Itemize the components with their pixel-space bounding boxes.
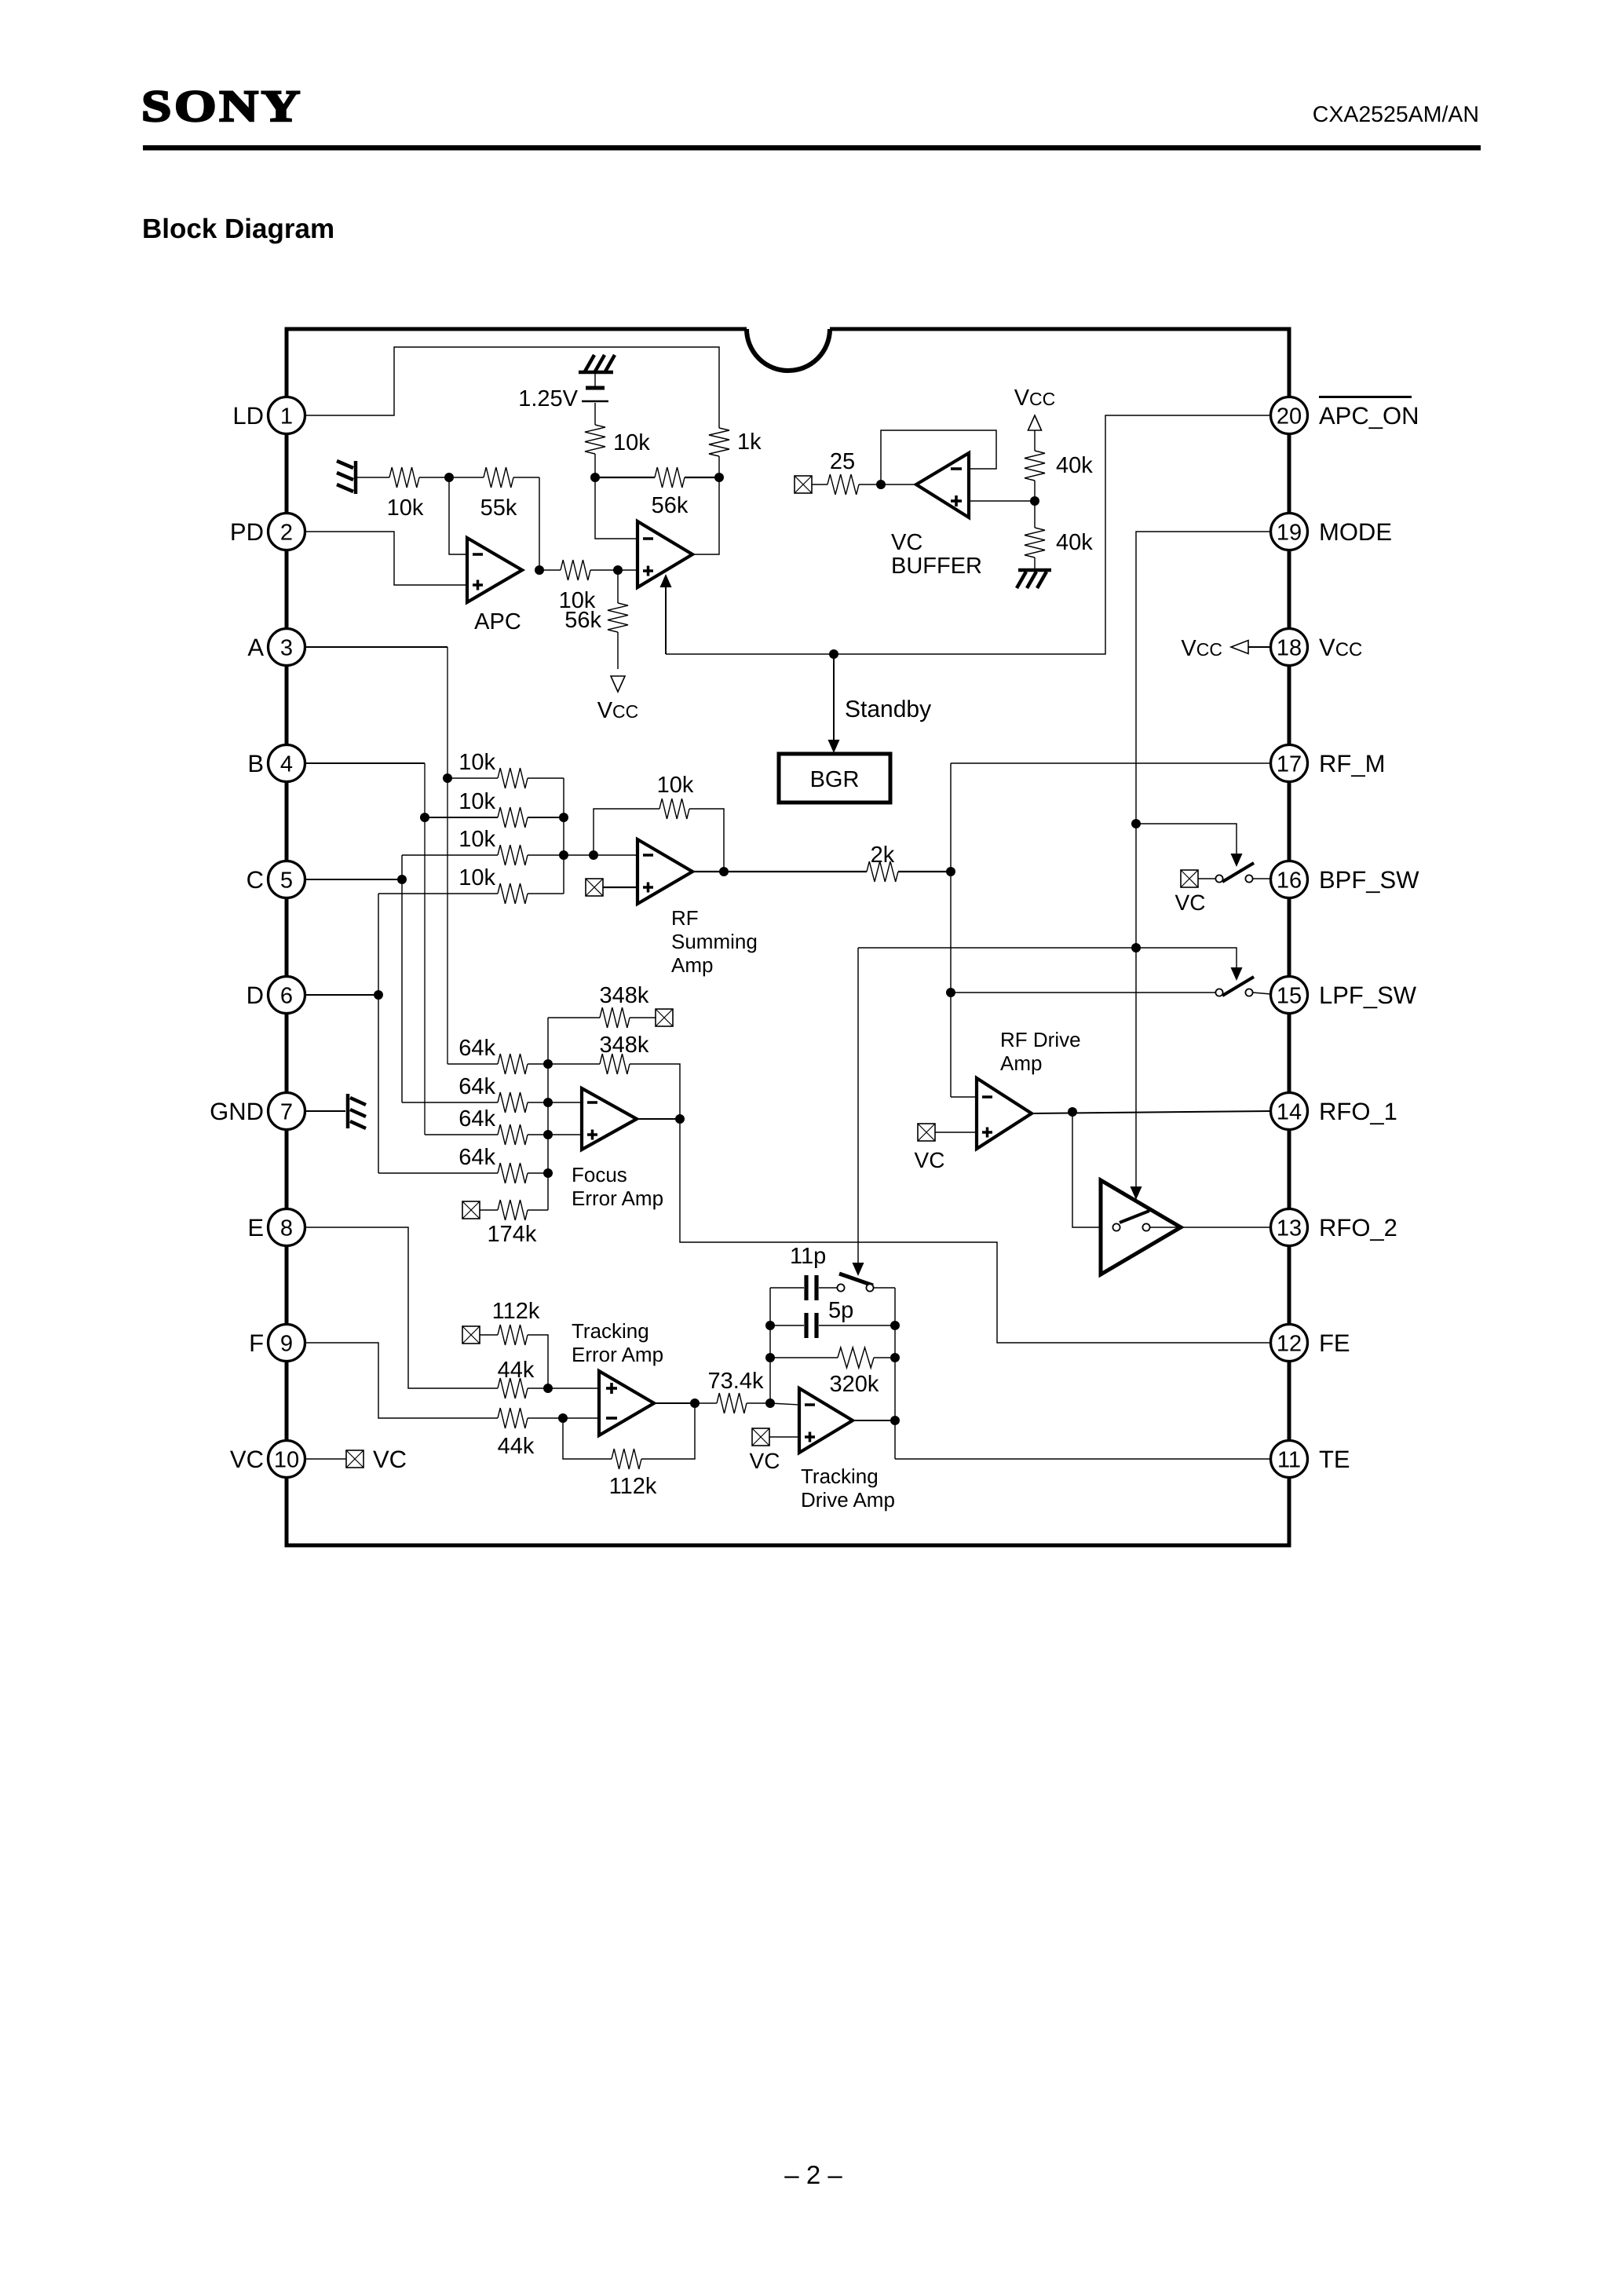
wire tracking drive output [853,1420,895,1421]
ground (APC input, left) [337,461,356,494]
resistor 10k (B input) [425,789,564,828]
svg-text:1k: 1k [737,430,762,455]
switch LPF_SW [1215,977,1271,996]
VC net symbol (112k upper) [462,1326,480,1344]
resistor 348k (focus feedback) [548,1033,680,1119]
wire pin5 C stub [305,879,402,880]
node A3 (laser amp + input node) [613,565,623,575]
tracking feedback left bus [769,1288,771,1403]
wire RF_M to RF drive - input [951,1096,977,1098]
VC buffer feedback loop [881,430,996,484]
svg-text:64k: 64k [458,1074,495,1099]
node B-10k [420,813,429,822]
svg-text:RF Drive: RF Drive [1000,1028,1081,1051]
svg-text:55k: 55k [480,495,517,521]
svg-text:112k: 112k [492,1299,540,1324]
svg-text:APC: APC [474,609,521,634]
wire RF drive output to pin14 [1032,1111,1271,1113]
svg-text:Error Amp: Error Amp [572,1186,663,1210]
svg-text:12: 12 [1277,1332,1302,1357]
svg-text:BUFFER: BUFFER [891,554,982,579]
node 5p left [765,1321,775,1330]
svg-text:19: 19 [1277,521,1302,546]
node sum-B [559,813,568,822]
svg-text:320k: 320k [830,1372,879,1397]
svg-text:1: 1 [280,404,293,430]
node MODE-BPF branch [1131,819,1141,828]
wire pin2 PD to APC non-inverting input [305,532,467,585]
svg-text:15: 15 [1277,984,1302,1009]
svg-text:348k: 348k [600,1033,649,1058]
svg-text:LD: LD [232,402,264,430]
svg-text:40k: 40k [1056,530,1093,555]
svg-text:APC_ON: APC_ON [1319,402,1419,430]
pin 9 (F) [249,1325,305,1362]
resistor 73.4k [695,1369,770,1413]
svg-text:9: 9 [280,1332,293,1357]
svg-text:A: A [247,634,264,661]
focus bus vertical [547,1018,549,1210]
svg-text:Error Amp: Error Amp [572,1343,663,1366]
pin 11 (TE) [1271,1441,1350,1478]
wire buffer output to pin13 [1181,1227,1271,1228]
node tracking + node [543,1384,553,1393]
svg-text:FE: FE [1319,1329,1350,1357]
node tracking error output [690,1398,700,1408]
wire summing output [692,871,724,872]
node RF_M-LPF [946,988,955,997]
svg-text:B: B [247,750,264,777]
svg-text:C: C [247,866,264,894]
svg-text:10k: 10k [458,865,495,890]
node A1 (56k left junction) [590,473,600,482]
resistor 64k (D) [378,1145,548,1183]
svg-text:25: 25 [830,449,855,474]
resistor 40k (upper) [1025,430,1093,501]
VC net symbol (buffer output) [795,476,812,493]
node tracking - node [558,1413,568,1423]
op-amp U4 (RF summing) [637,839,692,904]
MODE arrow into RFO_2 buffer [1131,1186,1142,1200]
svg-text:44k: 44k [498,1358,535,1383]
resistor 44k (F input) [498,1408,563,1459]
wire pin1 LD to top rail and 1k [305,347,719,428]
svg-text:– 2 –: – 2 – [784,2160,842,2189]
svg-text:Drive Amp: Drive Amp [801,1488,895,1512]
node A4 (10k/55k junction) [444,473,454,482]
svg-text:VC: VC [230,1446,264,1473]
svg-text:LPF_SW: LPF_SW [1319,982,1417,1009]
wire node A4 to APC inverting input [449,477,467,554]
svg-text:PD: PD [230,518,264,546]
svg-text:64k: 64k [458,1106,495,1132]
node 320k left [765,1353,775,1362]
node VC buffer output [876,480,886,489]
wire pin19 MODE control line [1136,532,1271,1188]
resistor 10k (A input) [448,750,564,788]
resistor 55k (APC feedback) [449,467,539,521]
svg-text:348k: 348k [600,983,649,1008]
svg-text:Amp: Amp [671,953,713,977]
IC package outline with pin-1 notch [287,329,1289,1545]
svg-text:10k: 10k [458,827,495,852]
pin 17 (RF_M) [1271,745,1386,782]
wire to tracking + input [548,1387,599,1389]
VC net symbol (pin 10) [346,1450,363,1468]
summing input bus [563,778,564,894]
node A-10k [443,773,452,783]
svg-text:56k: 56k [564,608,601,633]
pin 2 (PD) [230,514,305,550]
wire focus - input [548,1102,582,1103]
svg-text:64k: 64k [458,1036,495,1061]
resistor 112k (tracking feedback) [563,1403,695,1499]
resistor 10k (C input) [402,827,564,865]
svg-text:F: F [249,1329,264,1357]
resistor 56k (to Vcc) [564,570,628,669]
buffer U6 (RFO_2 switch buffer) [1101,1180,1181,1274]
op-amp U7 (focus error) [582,1088,637,1150]
resistor 64k (A) [448,1036,548,1074]
svg-text:17: 17 [1277,752,1302,777]
VC net symbol (BPF switch) [1181,870,1198,887]
node summing output [719,867,729,876]
resistor 25 (VC buffer output) [812,449,881,495]
node focus-D [543,1168,553,1178]
wire focus + input [548,1134,582,1135]
VC net symbol (348k) [656,1009,673,1026]
node focus-C [543,1098,553,1107]
wire node A1 to laser amp inverting input [595,477,637,539]
svg-text:20: 20 [1277,404,1302,430]
resistor 10k (D input) [378,865,564,904]
svg-text:10k: 10k [387,495,424,521]
svg-text:5: 5 [280,868,293,894]
svg-text:10: 10 [274,1448,299,1473]
wire to tracking - input [563,1417,599,1419]
svg-text:D: D [247,982,264,1009]
ground (above 1.25V reference) [579,355,615,372]
resistor 174k [480,1200,548,1247]
node focus-B [543,1130,553,1139]
svg-text:Tracking: Tracking [572,1319,649,1343]
wire B vertical [424,763,426,1135]
wire 55k to APC output node [539,477,540,570]
node RFO1 [1068,1107,1077,1117]
svg-text:4: 4 [280,752,293,777]
svg-text:Block Diagram: Block Diagram [142,214,334,244]
resistor 40k (lower) [1025,501,1093,569]
wire buffer output to apex [881,484,916,485]
node sum-C [559,850,568,860]
node D-pin6 [374,990,383,1000]
wire pin10 VC stub [305,1458,346,1460]
svg-text:56k: 56k [652,493,689,518]
svg-text:SONY: SONY [141,82,303,131]
node C-pin5 [397,875,407,884]
BPF control wire [1136,824,1237,857]
standby arrow into laser amp [665,586,667,654]
capacitor 11p with switch [770,1244,895,1300]
svg-text:2: 2 [280,521,293,546]
wire D vertical [378,894,379,1173]
pin 7 (GND) [210,1093,305,1130]
node RF_M-2k [946,867,955,876]
svg-text:VCC: VCC [597,698,639,723]
resistor 112k (to VC) [480,1299,548,1388]
svg-text:16: 16 [1277,868,1302,894]
svg-text:Tracking: Tracking [801,1464,879,1488]
op-amp U3 (VC buffer, left-pointing) [916,453,969,517]
Vcc symbol (down arrow, laser amp bias) [597,676,639,723]
wire laser amp output to node A2 [692,477,719,554]
RF_M node vertical [950,763,952,1097]
node A2 (1k/56k output junction) [714,473,724,482]
wire node A3 to laser amp non-inverting input [618,569,637,571]
pin 18 (VCC) [1271,629,1363,666]
svg-text:VCC: VCC [1181,636,1222,661]
svg-text:73.4k: 73.4k [708,1369,764,1394]
tracking feedback right bus [894,1288,896,1459]
VC net symbol (RF drive + input) [918,1124,935,1141]
svg-text:14: 14 [1277,1100,1302,1125]
op-amp U9 (tracking drive) [799,1388,853,1453]
VC net symbol (tracking drive + input) [752,1428,769,1446]
svg-text:13: 13 [1277,1216,1302,1241]
pin 16 (BPF_SW) [1271,861,1420,898]
svg-text:VCC: VCC [1014,386,1056,411]
resistor 10k (APC input) [357,467,449,521]
svg-text:VC: VC [373,1446,407,1473]
svg-text:Amp: Amp [1000,1051,1042,1075]
ground (below 40k divider) [1017,570,1051,588]
wire focus output [637,1118,680,1120]
svg-text:MODE: MODE [1319,518,1392,546]
svg-text:44k: 44k [498,1434,535,1459]
Vcc arrow at pin 18 [1248,646,1271,648]
node 5p right [890,1321,900,1330]
svg-text:RF: RF [671,906,699,930]
wire pin6 D stub [305,994,378,996]
svg-text:64k: 64k [458,1145,495,1170]
resistor 10k (summing feedback) [594,773,724,872]
resistor 348k (to VC) [548,983,656,1028]
wire pin9 F to tracking [305,1343,498,1418]
resistor 10k (APC output) [539,560,618,613]
resistor 320k [770,1347,895,1397]
resistor 2k [724,843,951,882]
svg-text:40k: 40k [1056,453,1093,478]
svg-text:Focus: Focus [572,1163,627,1186]
svg-text:3: 3 [280,636,293,661]
BGR block [779,754,890,803]
svg-text:174k: 174k [488,1222,537,1247]
wire buffer + input to divider node [969,500,1035,502]
pin 8 (E) [247,1209,305,1246]
op-amp U1 (APC) [467,538,522,602]
pin 3 (A) [247,629,305,666]
op-amp U5 (RF drive) [977,1078,1032,1149]
wire pin3 A stub [305,646,448,648]
svg-text:GND: GND [210,1098,264,1125]
svg-text:2k: 2k [871,843,895,868]
svg-text:6: 6 [280,984,293,1009]
svg-text:8: 8 [280,1216,293,1241]
wire bus to summing - input [564,854,637,856]
node MODE-LPF branch [1131,943,1141,952]
svg-text:18: 18 [1277,636,1302,661]
wire FE to pin12 [680,1119,1271,1343]
svg-text:BPF_SW: BPF_SW [1319,866,1419,894]
battery 1.25V [518,374,608,425]
VC net symbol (summing + input) [586,879,603,896]
svg-text:1.25V: 1.25V [518,386,578,411]
11p switch control arrow [857,948,859,1263]
wire RF_M to LPF switch [951,992,1215,993]
pin 19 (MODE) [1271,514,1393,550]
svg-text:10k: 10k [613,430,650,455]
pin 14 (RFO_1) [1271,1093,1397,1130]
svg-text:VC: VC [891,530,922,555]
pin 20 (APC_ON) [1271,396,1419,434]
capacitor 5p [770,1298,895,1338]
wire C vertical [401,855,403,1102]
wire pin4 B stub [305,762,425,764]
wire TE to pin11 [895,1458,1271,1460]
wire pin20 APC_ON to standby rail [666,415,1271,654]
wire RF_M to pin17 [951,762,1271,764]
wire pin8 E to tracking [305,1227,498,1388]
pin 6 (D) [247,977,305,1014]
wire to tracking drive - input [770,1403,799,1405]
node 320k right [890,1353,900,1362]
svg-text:Standby: Standby [845,696,931,722]
resistor 44k (E input) [498,1358,548,1398]
wire RFO1 to RFO_2 buffer [1072,1112,1112,1227]
svg-text:VC: VC [915,1148,945,1172]
svg-text:112k: 112k [609,1474,657,1499]
svg-text:VC: VC [1175,890,1206,915]
resistor 56k (horizontal) [595,467,719,518]
svg-text:RFO_1: RFO_1 [1319,1098,1397,1125]
node A5 (APC output) [535,565,544,575]
svg-text:RFO_2: RFO_2 [1319,1214,1397,1241]
op-amp U2 (laser drive) [637,521,692,587]
node summing feedback tap [589,850,598,860]
svg-text:7: 7 [280,1100,293,1125]
Vcc symbol (40k top) [1014,386,1056,430]
LPF control wire [858,948,1237,971]
svg-text:CXA2525AM/AN: CXA2525AM/AN [1313,102,1479,127]
svg-text:TE: TE [1319,1446,1350,1473]
node tracking drive output [890,1416,900,1425]
pin 12 (FE) [1271,1325,1350,1362]
svg-text:11: 11 [1277,1448,1301,1473]
svg-text:5p: 5p [828,1298,853,1323]
pin 13 (RFO_2) [1271,1209,1397,1246]
wire tracking error output [654,1402,695,1404]
resistor 64k (C) [402,1074,548,1113]
svg-text:10k: 10k [458,789,495,814]
svg-text:10k: 10k [657,773,694,798]
pin 1 (LD) [232,397,305,434]
node focus-A [543,1059,553,1069]
ground (pin 7 GND) [305,1094,366,1128]
svg-text:BGR: BGR [810,767,860,792]
svg-text:E: E [247,1214,264,1241]
op-amp U8 (tracking error) [599,1371,654,1435]
node 40k divider [1030,496,1039,506]
wire A vertical [447,647,448,1064]
pin 4 (B) [247,745,305,782]
node focus output [675,1114,685,1124]
svg-text:RF_M: RF_M [1319,750,1385,777]
resistor 1k [709,428,762,477]
standby arrow into BGR [833,654,835,741]
svg-text:Summing: Summing [671,930,758,953]
resistor 64k (B) [425,1106,548,1145]
switch BPF_SW [1215,863,1271,883]
pin 10 (VC) [230,1441,305,1478]
pin 15 (LPF_SW) [1271,977,1417,1014]
svg-text:VC: VC [750,1449,780,1473]
svg-text:10k: 10k [458,750,495,775]
header rule [143,145,1481,151]
svg-text:11p: 11p [790,1244,826,1269]
resistor 10k (1.25V branch) [585,425,650,477]
node tracking drive - node [765,1398,775,1408]
VC net symbol (174k) [462,1201,480,1219]
node standby junction [829,649,838,659]
pin 5 (C) [247,861,305,898]
